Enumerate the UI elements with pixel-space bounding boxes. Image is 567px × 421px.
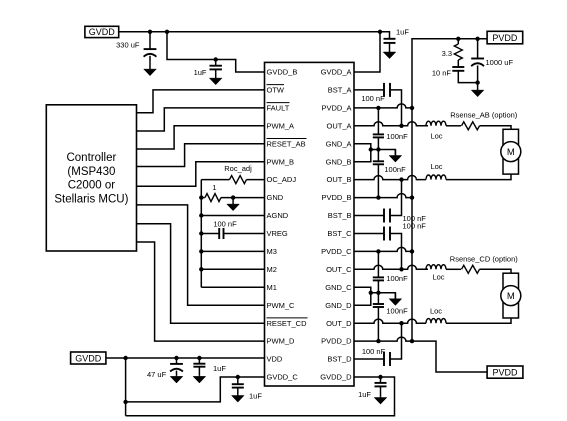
junction bus at GND row [199, 195, 203, 199]
capacitor 1uF (GVDD_B decoupling) [209, 60, 222, 85]
svg-text:Loc: Loc [430, 162, 442, 171]
wire controller to PWM_A [137, 126, 265, 149]
wire GVDD_C return [126, 377, 265, 402]
svg-text:BST_C: BST_C [327, 229, 352, 238]
capacitor 100nF (PVDD_A decoupling) [373, 108, 384, 150]
svg-text:BST_D: BST_D [327, 355, 352, 364]
label Rsense_AB (option) [450, 111, 518, 120]
svg-text:PVDD: PVDD [492, 368, 518, 378]
wire OUT_B row [354, 176, 426, 180]
resistor Rsense_AB (option) [462, 122, 480, 130]
svg-text:1: 1 [212, 183, 216, 192]
junction GND mid at cap AB [376, 147, 380, 151]
svg-text:1uF: 1uF [358, 390, 371, 399]
wire PVDD_D row [354, 337, 487, 372]
junction OUT_C at bootstrap return [399, 267, 403, 271]
svg-text:BST_B: BST_B [328, 211, 352, 220]
svg-text:47 uF: 47 uF [147, 370, 167, 379]
wire controller to RESET_CD [137, 224, 265, 324]
svg-text:1uF: 1uF [194, 68, 207, 77]
junction VDD wire at down drop [123, 356, 127, 360]
svg-text:GND_B: GND_B [326, 157, 352, 166]
junction on GVDD rail at GVDD_B drop [165, 30, 169, 34]
junction bus at AGND row [199, 213, 203, 217]
svg-text:GVDD_D: GVDD_D [320, 373, 352, 382]
svg-text:M3: M3 [267, 247, 277, 256]
power flag PVDD (top) [487, 31, 523, 44]
svg-text:OC_ADJ: OC_ADJ [267, 175, 297, 184]
wire M3 to bus [201, 250, 264, 252]
svg-text:100nF: 100nF [386, 274, 408, 283]
svg-text:100nF: 100nF [386, 132, 408, 141]
label 100nF (PVDD_B) [384, 165, 406, 174]
junction PVDD_D at decoupling cap [376, 339, 380, 343]
capacitor 100 nF (BST_C bootstrap) [354, 227, 402, 270]
svg-text:100 nF: 100 nF [213, 219, 237, 228]
inductor Loc (OUT_C) [426, 265, 446, 270]
wire controller to FAULT [137, 108, 265, 131]
label 100nF (PVDD_A) [386, 132, 408, 141]
capacitor 10 nF (snubber) [452, 67, 477, 83]
resistor 1 (to GND pin) [201, 194, 264, 202]
svg-text:100 nF: 100 nF [361, 94, 385, 103]
label Rsense_CD (option) [450, 255, 518, 264]
label 47 uF [147, 370, 167, 379]
wire Rsense to motor CD [480, 269, 512, 273]
wire M2 to bus [201, 268, 264, 270]
wire controller to PWM_B [137, 162, 265, 187]
svg-text:GND: GND [267, 193, 284, 202]
wire GVDD_D return and bottom rail [126, 377, 395, 416]
label 1uF (GVDD_A) [396, 27, 409, 36]
wire M1 to bus [201, 286, 264, 288]
svg-text:BST_A: BST_A [328, 86, 352, 95]
svg-text:OUT_C: OUT_C [326, 265, 352, 274]
label Loc (OUT_A) [430, 131, 442, 140]
junction GVDD_C wire at 1uF [236, 375, 240, 379]
svg-text:FAULT: FAULT [267, 104, 290, 113]
svg-text:100 nF: 100 nF [362, 347, 386, 356]
capacitor 47 uF (polarized) [170, 358, 183, 383]
label 100 nF (BST_A) [361, 94, 385, 103]
label Roc_adj [224, 164, 252, 173]
resistor 3.3 (snubber) [454, 39, 462, 67]
svg-text:1uF: 1uF [249, 391, 262, 400]
label Loc (OUT_B) [430, 162, 442, 171]
ground (GND pin) [227, 198, 240, 211]
svg-text:GND_D: GND_D [325, 301, 352, 310]
svg-text:GVDD_A: GVDD_A [321, 68, 352, 77]
svg-text:PWM_C: PWM_C [267, 301, 296, 310]
label 3.3 [442, 49, 452, 58]
capacitor 100 nF (BST_D bootstrap) [354, 323, 402, 366]
wire GVDD to VDD pin [106, 357, 265, 359]
svg-text:GVDD: GVDD [89, 27, 116, 37]
label 100 nF (BST_C) [403, 221, 427, 230]
svg-text:PVDD_A: PVDD_A [321, 104, 351, 113]
wire GVDD_B from rail to pin [167, 32, 265, 72]
wire Rsense to motor AB [480, 126, 512, 130]
svg-text:330 uF: 330 uF [116, 40, 140, 49]
motor M (CD) frame [503, 273, 519, 318]
label 1 (resistor) [212, 183, 216, 192]
wire GND_C GND_D bracket [354, 287, 371, 305]
svg-text:M: M [507, 291, 515, 302]
junction 1uF tap on GVDD_B wire [214, 57, 218, 61]
junction bus at M2 row [199, 267, 203, 271]
wire controller to PWM_D [137, 242, 265, 341]
wire motor CD to OUT_D [446, 318, 511, 323]
wire OUT_A row [354, 122, 428, 126]
inductor Loc (OUT_A) [426, 121, 446, 126]
junction GVDD_D wire at 1uF [378, 375, 382, 379]
svg-text:RESET_CD: RESET_CD [267, 319, 308, 328]
junction GND bracket mid CD [369, 291, 373, 295]
label 1uF (GVDD_B) [194, 68, 207, 77]
power flag PVDD (bottom) [487, 366, 523, 378]
capacitor 100nF (PVDD_B decoupling) [373, 150, 384, 198]
junction bus at VREG row [199, 231, 203, 235]
capacitor 100nF (PVDD_C decoupling) [373, 251, 384, 292]
wire motor AB to OUT_B [446, 174, 511, 180]
node bus (OC/AGND/VREG/M1-M3) [200, 180, 202, 288]
wire PVDD_C row [354, 247, 412, 251]
svg-text:3.3: 3.3 [442, 49, 452, 58]
svg-text:OUT_D: OUT_D [326, 319, 352, 328]
wire controller to OTW [137, 90, 265, 113]
svg-text:Controller: Controller [66, 152, 116, 164]
svg-text:(MSP430: (MSP430 [67, 166, 115, 178]
ground (GND_C/D) [389, 293, 402, 306]
svg-text:PVDD_C: PVDD_C [321, 247, 352, 256]
wire OUT_A to Rsense [446, 125, 461, 127]
svg-text:VREG: VREG [267, 229, 288, 238]
label Loc (OUT_C) [432, 273, 444, 282]
wire GND_A GND_B bracket [354, 144, 371, 162]
junction GND pin ground tap [231, 195, 235, 199]
svg-text:PWM_B: PWM_B [267, 157, 295, 166]
svg-text:1uF: 1uF [213, 364, 226, 373]
svg-text:M1: M1 [267, 283, 277, 292]
junction PVDD_B at PVDD bus [410, 195, 414, 199]
svg-text:GVDD: GVDD [75, 354, 102, 364]
wire controller to PWM_C [137, 205, 265, 305]
junction GND mid at cap CD [376, 291, 380, 295]
capacitor 100 nF (BST_B bootstrap) [354, 180, 402, 223]
junction on GVDD rail at 330uF [148, 30, 152, 34]
junction PVDD top at 1000uF [475, 37, 479, 41]
svg-text:Rsense_CD (option): Rsense_CD (option) [450, 255, 518, 264]
motor M (CD) symbol [501, 286, 521, 306]
svg-text:PVDD_D: PVDD_D [321, 337, 352, 346]
svg-text:10 nF: 10 nF [432, 68, 452, 77]
label 100 nF (BST_B) [403, 214, 427, 223]
controller block (MCU) [46, 105, 136, 251]
resistor Roc_adj [201, 176, 264, 184]
wire OUT_C row [354, 265, 428, 269]
inductor Loc (OUT_D) [426, 319, 446, 324]
svg-text:AGND: AGND [267, 211, 289, 220]
junction PVDD_C at PVDD bus [410, 249, 414, 253]
svg-text:Stellaris MCU): Stellaris MCU) [54, 193, 128, 205]
label Loc (OUT_D) [430, 307, 442, 316]
wire GVDD top rail [119, 31, 380, 33]
capacitor 1000 uF (PVDD bulk, polarized) [471, 39, 484, 83]
power flag GVDD (top) [85, 26, 119, 37]
svg-text:RESET_AB: RESET_AB [267, 139, 306, 148]
junction bottom node [123, 400, 127, 404]
wire VDD node to bottom rail [125, 358, 127, 416]
wire GVDD_A from rail to pin [354, 32, 380, 72]
label 330 uF [116, 40, 140, 49]
controller text label [54, 152, 128, 205]
junction VDD wire at 47uF [174, 356, 178, 360]
junction PVDD top at 3.3 ohm [456, 37, 460, 41]
svg-text:Loc: Loc [430, 307, 442, 316]
wire controller to RESET_AB [137, 144, 265, 167]
label 100 nF (BST_D) [362, 347, 386, 356]
svg-text:PWM_A: PWM_A [267, 121, 295, 130]
junction OUT_B at BST_B return [399, 177, 403, 181]
wire GND mid tap CD [371, 293, 396, 299]
capacitor 1uF (GVDD_A decoupling) [380, 32, 396, 59]
svg-text:VDD: VDD [267, 355, 283, 364]
svg-text:M2: M2 [267, 265, 277, 274]
wire OUT_C to Rsense [446, 268, 461, 270]
label 100nF (PVDD_C) [386, 274, 408, 283]
svg-text:OUT_B: OUT_B [326, 175, 351, 184]
svg-text:OUT_A: OUT_A [326, 121, 351, 130]
capacitor 1uF (GVDD_D) [374, 377, 387, 404]
svg-text:Loc: Loc [432, 273, 444, 282]
junction PVDD_A at PVDD bus [410, 106, 414, 110]
IC U1 right pin name labels [320, 68, 352, 382]
wire PVDD top to bus [412, 39, 487, 341]
junction PVDD_C at decoupling cap [376, 249, 380, 253]
wire GND mid tap AB [371, 150, 396, 156]
svg-text:1000 uF: 1000 uF [486, 58, 514, 67]
junction PVDD snubber ground node [475, 80, 479, 84]
capacitor 100nF (PVDD_D decoupling) [373, 293, 384, 341]
ground (GND_A/B) [389, 150, 402, 163]
svg-text:1uF: 1uF [396, 27, 409, 36]
label 1000 uF [486, 58, 514, 67]
capacitor 1uF (VDD) [193, 358, 206, 383]
label 1uF (GVDD_C) [249, 391, 262, 400]
junction on GVDD rail at GVDD_A drop [378, 30, 382, 34]
motor M (AB) symbol [501, 142, 521, 162]
inductor Loc (OUT_B) [426, 175, 446, 180]
capacitor 330 uF (polarized, GVDD bulk) [144, 32, 157, 76]
svg-text:GVDD_B: GVDD_B [267, 68, 298, 77]
op-amp / driver IC U1 (DRV8432) body [265, 62, 355, 386]
svg-text:PWM_D: PWM_D [267, 337, 296, 346]
junction OUT_D at BST_D return [399, 321, 403, 325]
svg-text:Rsense_AB (option): Rsense_AB (option) [450, 111, 518, 120]
svg-text:100nF: 100nF [386, 306, 408, 315]
capacitor 1uF (GVDD_C) [232, 377, 245, 402]
capacitor 100 nF (BST_A bootstrap) [354, 83, 402, 126]
svg-text:OTW: OTW [267, 86, 285, 95]
junction VDD wire at 1uF [197, 356, 201, 360]
svg-text:GND_A: GND_A [326, 139, 352, 148]
wire PVDD_B row [354, 194, 412, 198]
wire OUT_D row [354, 319, 426, 323]
label 100nF (PVDD_D) [386, 306, 408, 315]
wire AGND to bus [201, 215, 264, 217]
ground (PVDD bulk) [471, 83, 484, 97]
label 1uF (GVDD_D) [358, 390, 371, 399]
junction bus at M3 row [199, 249, 203, 253]
junction PVDD_B at decoupling cap [376, 195, 380, 199]
junction PVDD_A at decoupling cap [376, 106, 380, 110]
junction PVDD_D at PVDD bus [410, 339, 414, 343]
IC U1 left pin name labels [267, 68, 308, 382]
junction OUT_A at bootstrap return [399, 124, 403, 128]
svg-text:Roc_adj: Roc_adj [224, 164, 252, 173]
svg-text:Loc: Loc [430, 131, 442, 140]
svg-text:PVDD: PVDD [492, 33, 518, 43]
label 1uF (VDD) [213, 364, 226, 373]
junction GND bracket mid AB [369, 147, 373, 151]
label 100 nF (VREG) [213, 219, 237, 228]
svg-text:100 nF: 100 nF [403, 221, 427, 230]
svg-text:GND_C: GND_C [325, 283, 352, 292]
label 10 nF [432, 68, 452, 77]
wire PVDD_A row [354, 104, 412, 108]
capacitor 100 nF (VREG) [201, 228, 264, 239]
svg-text:GVDD_C: GVDD_C [267, 373, 299, 382]
svg-text:PVDD_B: PVDD_B [321, 193, 351, 202]
svg-text:100nF: 100nF [384, 165, 406, 174]
power flag GVDD (bottom) [71, 352, 106, 364]
svg-text:C2000 or: C2000 or [68, 180, 115, 192]
resistor Rsense_CD (option) [462, 265, 480, 273]
svg-text:M: M [507, 147, 515, 158]
motor M (AB) frame [503, 129, 519, 174]
